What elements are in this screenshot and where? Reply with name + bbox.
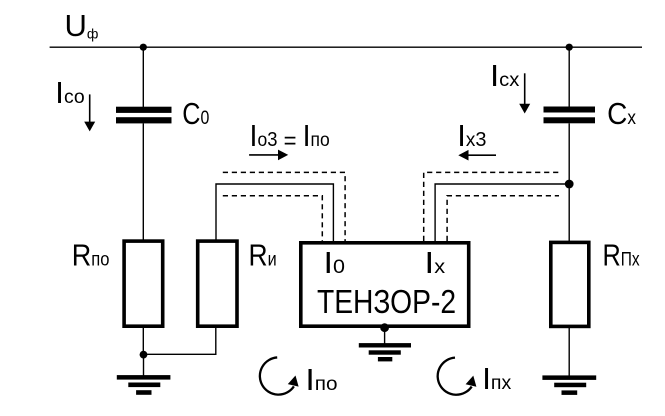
wire: cable inner shield (dashed), right cable <box>447 196 559 241</box>
wire: node B down to Cx <box>568 47 570 107</box>
wire: cable inner shield (dashed), left cable <box>223 196 322 241</box>
node E (device box ground terminal) <box>380 323 389 332</box>
wire: Rпо down to ground node <box>142 328 144 356</box>
wire: Cx down to resistor RПх <box>568 123 570 242</box>
node D (Rпо / Rи common ground point) <box>140 351 148 359</box>
wire: C0 down to resistor Rпо <box>142 123 144 241</box>
wire: node A down to C0 <box>142 47 144 107</box>
arrow: Iсх current direction (down) <box>519 73 530 113</box>
arrow: Iхз direction (left) <box>458 150 496 161</box>
wire: cable core Rи to I0 terminal <box>216 184 333 243</box>
wire: cable outer shield (dashed), left cable <box>223 172 345 241</box>
arrow: Iоз direction (right) <box>249 150 288 161</box>
wire: cable core Iх terminal to Cx branch node <box>435 184 569 243</box>
ground (left, measuring circuit) <box>117 355 171 395</box>
capacitor Cx <box>544 107 596 124</box>
wire: RПх down to ground <box>568 326 570 375</box>
node C (cable shield junction on Cx branch) <box>565 180 574 189</box>
ground (device box) <box>359 328 411 362</box>
rotation arrow Iпо (circular, counterclockwise) <box>260 357 299 394</box>
rotation arrow Iпх (circular, counterclockwise) <box>438 358 477 395</box>
wire: cable outer shield (dashed), right cable <box>424 172 559 241</box>
ground (right, RПх) <box>542 375 596 395</box>
device box ТЕНЗОР-2 <box>301 243 469 326</box>
resistor Rи <box>198 241 237 326</box>
resistor Rпо <box>124 241 163 326</box>
node B (top rail / Cx branch junction) <box>566 44 573 51</box>
wire: top phase rail <box>50 46 642 48</box>
svg-text:ТЕНЗОР-2: ТЕНЗОР-2 <box>317 283 456 321</box>
node A (top rail / C0 branch junction) <box>140 44 147 51</box>
wire: Rи bottom to node D <box>144 328 216 354</box>
arrow: Iсо current direction (down) <box>84 94 95 131</box>
capacitor C0 <box>116 107 172 124</box>
resistor RПх <box>551 242 589 326</box>
